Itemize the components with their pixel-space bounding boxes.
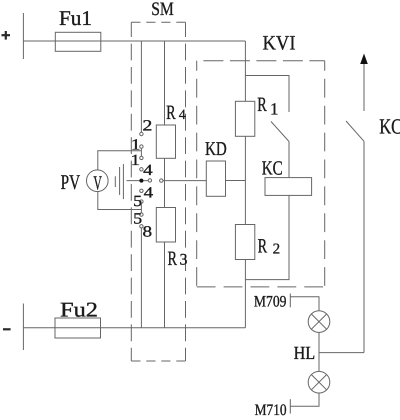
contact 2 circle [140,132,143,135]
connector circle right [160,179,163,182]
resistor R4 [156,125,175,158]
wire voltmeter bottom [98,192,142,210]
resistor R2 [235,225,254,260]
- terminal [3,328,11,330]
relay KD [206,161,225,196]
svg-text:4: 4 [144,184,154,201]
wire bus to R4 [164,41,166,125]
connector circle left [148,179,151,182]
branch wire to KC contact [245,76,289,113]
svg-text:Fu1: Fu1 [59,6,92,30]
wire voltmeter top [98,151,142,170]
terminal M710 tick [289,399,291,413]
contact 8 circle [140,225,143,228]
contact 1 upper circle [140,145,143,148]
svg-text:M709: M709 [254,293,287,310]
SM enclosure dashed box [131,22,185,361]
resistor R1 [235,101,254,136]
KC contact blade right [346,121,364,141]
svg-text:R: R [257,94,267,116]
svg-text:1: 1 [270,100,279,119]
positive terminal bar [22,13,24,59]
wire branch to lamp chain [319,352,364,354]
svg-text:R: R [258,236,268,258]
switch wiper bars [115,164,123,199]
svg-text:1: 1 [131,152,141,169]
wire KD to R1R2 node [226,180,246,182]
svg-text:HL: HL [294,344,316,364]
wire right contact down [363,141,365,352]
label R4 [166,102,186,124]
wire R1 to R2 [244,136,246,224]
wire lamp1 to lamp2 [318,332,320,371]
svg-text:KC: KC [262,157,283,179]
svg-text:SM: SM [151,0,174,20]
svg-text:4: 4 [143,162,153,179]
wire wiper to KD [163,180,206,182]
bottom bus wire [23,327,245,329]
arrowhead [360,54,368,65]
svg-text:2: 2 [142,118,152,135]
label R1 [257,94,278,118]
negative terminal bar [22,304,24,351]
svg-text:R: R [166,102,176,124]
contact 5 lower circle [140,213,143,216]
wire KC coil return [245,195,289,279]
contact 1 lower circle [140,156,143,159]
svg-text:4: 4 [179,108,186,123]
wire bus to contact 2 [140,41,142,132]
svg-text:M710: M710 [255,402,287,419]
svg-text:3: 3 [180,251,188,268]
top bus wire [23,40,245,42]
svg-text:PV: PV [61,170,81,194]
svg-text:Fu2: Fu2 [60,297,98,321]
KVI enclosure dashed box [197,61,325,287]
fuse Fu1 [55,32,101,51]
svg-text:8: 8 [143,223,153,240]
wire R2 to bottom bus [244,260,246,328]
label R2 [258,236,281,258]
contact 4 upper circle [140,168,143,171]
arrow line KC circuit [363,58,365,111]
wiper junction dot [139,179,143,183]
label R3 [168,248,188,270]
+ terminal [2,31,11,40]
wire R3 to bottom bus [164,242,166,328]
svg-text:KVI: KVI [263,33,296,55]
contact 4 lower circle [140,189,143,192]
lamp HL2 [308,371,330,393]
lamp HL1 [308,311,330,333]
wire lamp2 to M710 [290,393,319,406]
svg-text:R: R [168,248,178,270]
relay coil KC [265,178,312,196]
svg-text:KD: KD [205,139,227,160]
svg-text:V: V [93,173,102,195]
contact 5 upper circle [140,200,143,203]
wire blade to KC coil [288,142,290,178]
svg-text:2: 2 [273,241,281,257]
wire bus down to R1 [244,41,246,101]
terminal M709 tick [289,294,291,308]
resistor R3 [156,208,175,243]
wire contact 8 to bottom bus [140,228,142,328]
fuse Fu2 [55,318,101,338]
wire R4 to R3 [164,158,166,207]
wire M709 to lamp1 [290,297,319,311]
svg-text:KC: KC [379,115,400,139]
jumper contact 5 [140,203,142,213]
jumper contact 1 [140,148,142,156]
wiper wire to dot [127,180,149,182]
voltmeter PV circle [87,170,109,192]
KC contact blade left [271,122,289,142]
